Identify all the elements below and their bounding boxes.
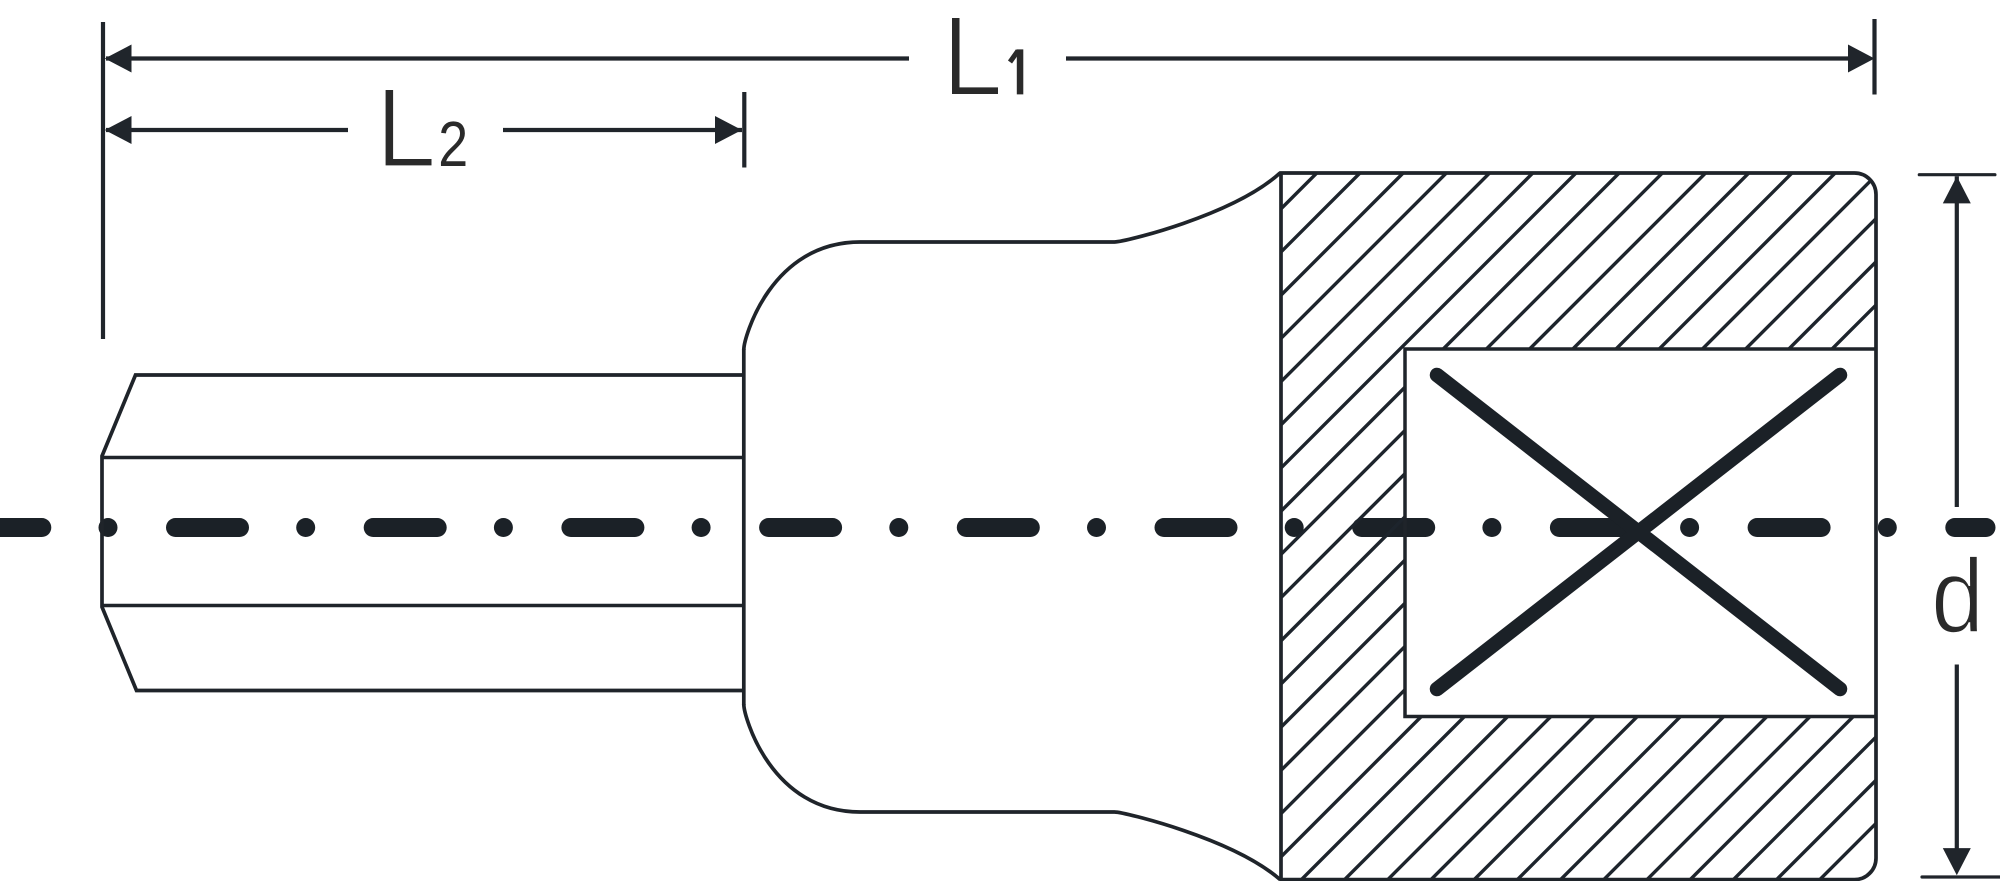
hex bit outline (left tool tip) <box>102 375 744 691</box>
L2 left arrowhead <box>105 116 132 144</box>
L1 right extension line <box>1872 19 1876 95</box>
hex bit upper facet line <box>102 456 744 460</box>
svg-text:d: d <box>1931 538 1984 656</box>
bit end face line <box>742 349 746 705</box>
L2 right arrowhead <box>715 116 742 144</box>
L1 left extension line <box>101 22 105 339</box>
L2 dimension line <box>106 128 742 132</box>
socket body outline (cross-section) <box>1281 173 1876 880</box>
d dimension line <box>1955 176 1959 850</box>
label L1 <box>952 18 998 94</box>
d bottom arrowhead <box>1943 848 1971 875</box>
svg-text:2: 2 <box>438 107 468 180</box>
L1 right arrowhead <box>1848 45 1875 73</box>
hatching (section lines of socket body) <box>430 0 2000 881</box>
square drive recess outline <box>1405 349 1876 717</box>
hex bit lower facet line <box>102 604 744 608</box>
d bottom tick <box>1922 875 2000 878</box>
d top arrowhead <box>1943 176 1971 203</box>
L1 dimension line <box>106 56 1850 60</box>
centerline (dash-dot axis) <box>0 518 1986 537</box>
d top tick <box>1919 173 1995 176</box>
neck lower profile <box>744 704 1280 880</box>
L1 left arrowhead <box>105 45 132 73</box>
X cross in drive square <box>1437 375 1840 689</box>
label L2 <box>386 90 432 165</box>
neck upper profile (bit to shank to body) <box>744 173 1280 350</box>
L2 right extension line <box>742 92 746 168</box>
